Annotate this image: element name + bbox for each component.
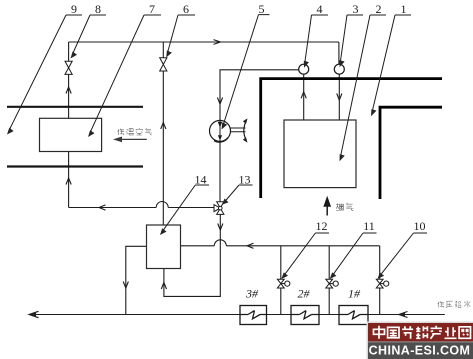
svg-text:13: 13: [239, 173, 251, 187]
fan 5: [210, 118, 248, 142]
furnace port 4: [299, 64, 309, 74]
duct wall: cold air duct lower: [7, 165, 143, 167]
label 3 leader: [339, 15, 363, 67]
wire: port 4 pipe into furnace: [303, 74, 305, 120]
text: flue gas (yan qi): [336, 203, 353, 211]
flow arrow: up into air preheater 7: [66, 178, 71, 185]
label 10: [414, 219, 426, 233]
watermark text: zhong guo jie neng chan ye wang: [374, 326, 471, 339]
heater box 3#: [240, 306, 267, 325]
flow arrow: feed water line left end: [29, 311, 39, 317]
wire jump: line over valve-6 riser: [156, 202, 168, 208]
wire: riser to valve 11: [328, 246, 330, 315]
label 14 leader: [160, 185, 209, 235]
label 5: [259, 2, 265, 16]
svg-text:1#: 1#: [348, 287, 361, 301]
flow arrow: up into valve 6: [161, 123, 166, 130]
label 2#: [298, 287, 311, 301]
label 14: [195, 173, 207, 187]
wire: spray water manifold: [181, 245, 380, 247]
watermark bar: china-esi red band: [367, 322, 473, 359]
control valve 10: [376, 279, 389, 288]
flow arrow: top header right: [214, 40, 221, 45]
flow arrow: down out of valve 13: [218, 224, 223, 231]
text: low pressure feed water (di ya gei shui): [438, 301, 471, 308]
flow arrow: feed water inlet at right: [399, 312, 408, 318]
wire jump: manifold over valve-13 drop pipe: [214, 240, 226, 246]
svg-text:5: 5: [259, 2, 265, 16]
label 5 leader: [222, 15, 270, 130]
label 6: [183, 2, 189, 16]
text: cold air (di wen kong qi): [118, 128, 152, 135]
label 2: [376, 2, 382, 16]
flow arrow: left on preheater outlet line: [99, 205, 106, 210]
label 1#: [348, 287, 361, 301]
flue wall 1 outer: [259, 79, 442, 198]
label 1 leader: [371, 15, 411, 116]
flow arrow: up into valve 8: [66, 87, 71, 94]
wire: fan discharge down through valve 13: [164, 141, 220, 296]
label 4: [317, 2, 323, 16]
flow arrow: down into fan 5: [217, 98, 222, 105]
label 3#: [245, 287, 259, 301]
wire: top recirculation header: [69, 42, 339, 64]
label 7: [149, 2, 155, 16]
wire: riser to valve 10: [379, 246, 381, 315]
label 9: [71, 2, 77, 16]
air preheater 7: [40, 118, 102, 151]
label 7 leader: [88, 15, 161, 137]
svg-text:2#: 2#: [298, 287, 311, 301]
label 12: [316, 219, 328, 233]
watermark text: china-esi.com: [369, 344, 471, 358]
label 11: [363, 219, 375, 233]
svg-text:1: 1: [401, 2, 407, 16]
label 9 leader: [7, 15, 82, 135]
cold air arrow: [113, 137, 147, 143]
wire: low pressure feed water line: [29, 314, 445, 316]
wire: riser to valve 12: [280, 246, 282, 315]
valve 6: [160, 58, 167, 71]
flow arrow: up out of furnace port 4 pipe: [301, 92, 306, 99]
svg-text:10: 10: [414, 219, 426, 233]
control valve 12: [277, 279, 290, 288]
label 8 leader: [71, 15, 107, 59]
label 10 leader: [377, 233, 427, 279]
svg-text:12: 12: [316, 219, 328, 233]
flow arrow: up into economizer 14 bottom: [161, 283, 166, 290]
svg-text:9: 9: [71, 2, 77, 16]
control valve 11: [326, 279, 339, 288]
economizer 14: [147, 225, 181, 269]
label 12 leader: [281, 233, 329, 279]
duct wall: cold air duct upper: [7, 106, 143, 108]
flow arrow: down into furnace via port 3: [337, 94, 342, 101]
svg-text:11: 11: [363, 219, 375, 233]
wire: port 3 pipe into furnace: [338, 74, 340, 120]
label 3: [353, 2, 359, 16]
svg-text:3#: 3#: [245, 287, 259, 301]
label 13 leader: [222, 185, 253, 205]
heater box 1#: [339, 306, 368, 325]
flow arrow: left on spray manifold: [247, 243, 254, 248]
svg-text:6: 6: [183, 2, 189, 16]
label 2 leader: [340, 15, 387, 161]
label 8: [95, 2, 101, 16]
svg-text:4: 4: [317, 2, 323, 16]
flue gas arrow: [324, 198, 330, 216]
svg-text:2: 2: [376, 2, 382, 16]
wire: air preheater outlet line to three-way valve 13: [69, 152, 214, 208]
label 1: [401, 2, 407, 16]
label 6 leader: [166, 15, 195, 58]
flow arrow: down on economizer left drop: [123, 282, 128, 289]
label 11 leader: [330, 233, 377, 279]
heater box 2#: [291, 306, 319, 325]
valve 8: [65, 61, 72, 74]
furnace 2: [284, 120, 356, 188]
wire: valve 8 riser from air preheater: [68, 42, 70, 118]
wire: fan suction line from port 4: [220, 70, 299, 121]
svg-text:8: 8: [95, 2, 101, 16]
label 13: [239, 173, 251, 187]
svg-text:7: 7: [149, 2, 155, 16]
svg-text:3: 3: [353, 2, 359, 16]
svg-text:14: 14: [195, 173, 207, 187]
svg-text:CHINA-ESI.COM: CHINA-ESI.COM: [369, 344, 471, 358]
label 4 leader: [304, 15, 328, 68]
furnace port 3: [334, 64, 344, 74]
wire: economizer 14 left port to feed line: [126, 246, 147, 314]
three-way valve 13: [214, 202, 224, 215]
wire: valve 6 riser down to economizer 14: [162, 42, 164, 225]
flue wall inner: [379, 107, 442, 199]
